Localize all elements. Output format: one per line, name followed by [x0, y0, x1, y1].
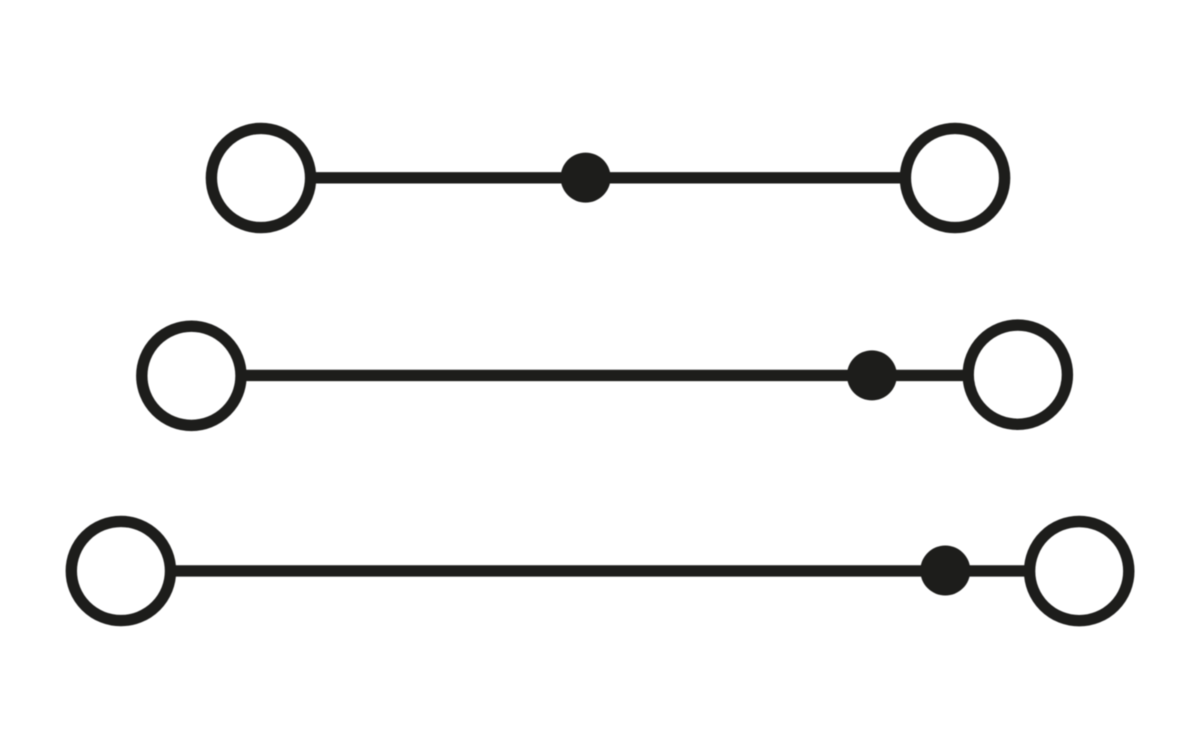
level 2 wire: [191, 370, 1017, 381]
level 2 left terminal contact: [142, 326, 241, 425]
level 1 wire: [261, 172, 955, 183]
level 3 junction node: [920, 546, 970, 596]
level 1 junction node: [561, 153, 611, 203]
level 2 right terminal contact: [968, 325, 1067, 424]
level 3 wire: [121, 565, 1079, 576]
level 3 left terminal contact: [71, 521, 170, 620]
level 1 left terminal contact: [211, 128, 310, 227]
level 3 right terminal contact: [1030, 522, 1129, 621]
level 1 right terminal contact: [905, 128, 1004, 227]
level 2 junction node: [847, 350, 897, 400]
